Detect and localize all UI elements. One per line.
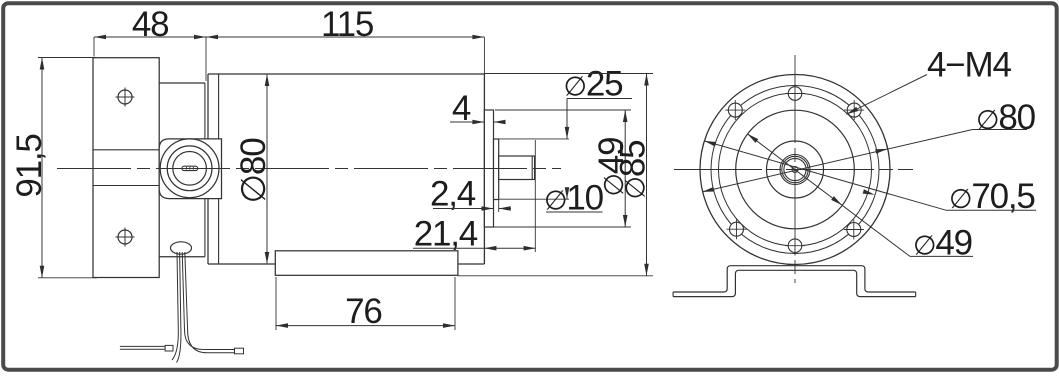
svg-text:2,4: 2,4 <box>430 175 476 214</box>
brush housing <box>275 251 458 275</box>
hub ring outer <box>780 155 810 185</box>
mounting bracket outer contour <box>673 266 916 292</box>
motor end cap left edge <box>207 74 209 264</box>
plate screw bottom <box>118 230 132 244</box>
dim line Ø70,5 front <box>704 141 946 210</box>
wire ferrule right <box>235 348 244 354</box>
leader Ø25 <box>567 98 632 100</box>
ext line Ø85 bottom <box>458 275 653 277</box>
shaft center hole <box>792 167 798 173</box>
dim line Ø80 left view <box>266 74 268 264</box>
dim line Ø85 <box>646 74 648 276</box>
ext line 91,5 top <box>38 57 97 59</box>
screw hole lower-right M4 <box>847 223 861 237</box>
ext line 91,5 bottom <box>38 277 97 279</box>
dim line Ø49 front <box>747 134 910 257</box>
wire grommet <box>171 242 192 254</box>
bolt circle Ø70,5 <box>711 86 879 254</box>
svg-text:115: 115 <box>321 5 373 44</box>
svg-text:21,4: 21,4 <box>414 215 478 254</box>
screw hole upper-left M4 <box>728 103 742 117</box>
rear boss Ø25 <box>494 139 499 200</box>
ext line Ø25 boss top <box>499 138 569 140</box>
screw hole bottom <box>788 239 802 253</box>
lead wire tail left <box>172 330 178 360</box>
inner bolt circle <box>719 93 872 246</box>
output shaft slot <box>182 166 198 170</box>
leader Ø10 <box>546 211 603 213</box>
dim line Ø80 front <box>702 130 972 192</box>
ext line Ø49 top <box>495 109 631 111</box>
ext line 48 left <box>93 37 95 57</box>
ext line 115 right <box>483 37 485 74</box>
dim line 2,4 <box>433 208 494 210</box>
lead wire bend right <box>185 330 235 350</box>
front view horizontal centerline <box>674 169 913 171</box>
screw hole top <box>788 87 802 101</box>
gearbox mounting plate (side view) <box>93 58 159 278</box>
ext line 48/115 middle <box>205 37 207 81</box>
plate screw top <box>118 90 132 104</box>
dim line 91,5 <box>41 58 43 278</box>
ext line Ø49 bottom <box>494 226 632 228</box>
dim line 76 <box>276 325 455 327</box>
dim line 21,4 <box>413 247 536 249</box>
ext line 2,4 <box>498 200 500 213</box>
gear housing right edge <box>204 83 206 257</box>
lead wires vertical bundle <box>177 252 178 330</box>
output shaft circle <box>173 152 207 186</box>
arrow Ø25 bottom <box>566 191 568 200</box>
gear housing top edge <box>159 82 205 84</box>
gear housing bottom edge <box>159 256 205 258</box>
motor cap joint line <box>218 74 220 264</box>
bracket left foot end <box>672 292 674 297</box>
front view vertical centerline <box>794 55 796 283</box>
svg-text:4−M4: 4−M4 <box>927 46 1011 85</box>
motor body outline <box>208 73 484 75</box>
hub ring inner <box>784 158 806 180</box>
svg-text:91,5: 91,5 <box>10 134 49 197</box>
rear shaft Ø10 <box>499 156 535 180</box>
output boss middle circle <box>167 146 212 191</box>
screw hole upper-right M4 <box>847 103 861 117</box>
ext line Ø85 top <box>484 73 653 75</box>
output boss block <box>159 139 221 199</box>
svg-text:48: 48 <box>132 5 169 44</box>
dim line 4 <box>450 121 484 123</box>
plate band line upper <box>93 149 159 151</box>
shaft end line <box>531 156 533 180</box>
plate band line lower <box>93 185 159 187</box>
dim line Ø49 left view <box>624 110 626 227</box>
flange circle Ø49 <box>736 110 855 229</box>
left wire <box>120 345 165 347</box>
ext line 76 left <box>275 277 277 330</box>
ext line 76 right <box>454 277 456 330</box>
ext line Ø25 boss bottom <box>499 198 569 200</box>
leader 4-M4 <box>847 75 928 115</box>
mounting bracket inner contour <box>673 270 916 296</box>
rear collar Ø49 <box>484 110 493 227</box>
ext line 21,4 right <box>534 140 536 252</box>
bearing boss circle <box>767 141 824 198</box>
motor face outer circle Ø85 <box>700 75 890 265</box>
bracket right foot end <box>915 292 917 297</box>
dim line 48/115 <box>94 36 484 38</box>
screw hole lower-left M4 <box>730 222 744 236</box>
hub ring middle <box>782 156 808 182</box>
output boss outer circle <box>160 139 219 198</box>
left wire ferrule <box>165 345 173 351</box>
axis centerline <box>57 168 561 170</box>
